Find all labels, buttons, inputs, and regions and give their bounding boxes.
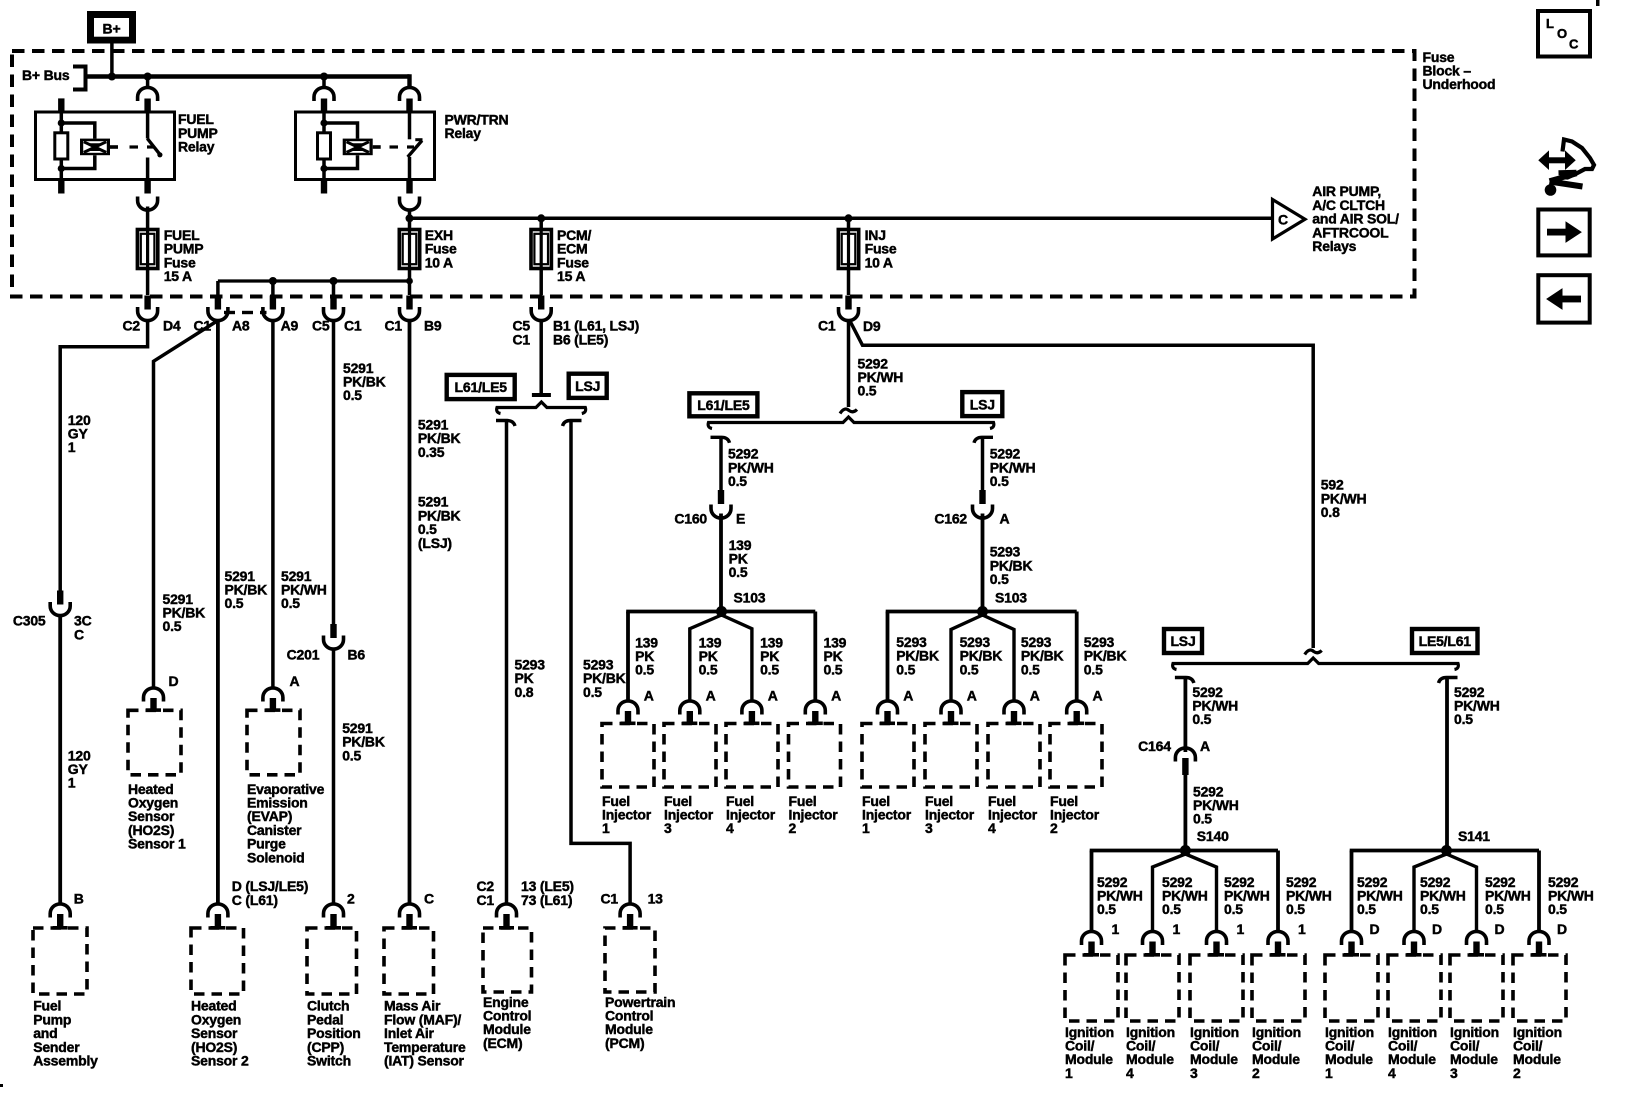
component Powertrain Control Module PCM (605, 928, 675, 1051)
relay coil pin stub bottom (58, 180, 64, 194)
svg-text:(LSJ): (LSJ) (418, 535, 452, 551)
junction lower rail A9 (269, 277, 277, 285)
svg-text:(ECM): (ECM) (483, 1035, 522, 1051)
svg-text:0.5: 0.5 (1021, 661, 1040, 677)
connector C1/A8 (194, 296, 250, 334)
connector pin 1 Ignition Coil 1 (LSJ) (1082, 921, 1120, 957)
component Ignition Coil Module 4 (LE5/L61) (1388, 955, 1441, 1081)
connector pin A Fuel Injector 1 (L61/LE5) (618, 687, 654, 725)
svg-text:C2: C2 (123, 318, 141, 334)
arrow C to air pump a/c clutch relays (1273, 183, 1400, 254)
wire brace to S141 5292 PK/WH (1439, 678, 1458, 851)
connector pin A EVAP (263, 673, 300, 712)
svg-text:B6: B6 (348, 646, 366, 662)
svg-text:0.5: 0.5 (163, 618, 182, 634)
svg-text:A8: A8 (232, 318, 250, 334)
svg-text:B6 (LE5): B6 (LE5) (553, 331, 608, 347)
component Ignition Coil Module 2 (LE5/L61) (1513, 955, 1566, 1081)
connector C1/D9 (818, 269, 881, 335)
svg-text:A9: A9 (281, 318, 299, 334)
connector pin A Fuel Injector 4 (L61/LE5) (742, 687, 778, 725)
wire C5 to C201 5291 PK/BK (332, 321, 336, 627)
wire C160 to S103 139 PK (719, 514, 723, 612)
svg-text:O: O (1557, 26, 1567, 41)
svg-text:0.5: 0.5 (225, 595, 244, 611)
svg-text:0.5: 0.5 (583, 684, 602, 700)
svg-text:0.5: 0.5 (760, 662, 779, 678)
wire A9 to EVAP 5291 PK/WH (271, 321, 275, 689)
svg-text:0.5: 0.5 (896, 661, 915, 677)
svg-text:A: A (1093, 687, 1103, 703)
fuse INJ 10A (838, 218, 897, 270)
label 5292 PK/WH 0.5 c164 upper (1192, 684, 1238, 727)
svg-text:10 A: 10 A (865, 254, 893, 270)
svg-text:L: L (1546, 16, 1554, 31)
tag L61/LE5 ecm (447, 375, 515, 399)
wire fuel pump fuse down (146, 269, 150, 296)
wire B+ to bus (110, 44, 114, 77)
connector pin D HO2S1 (144, 673, 179, 712)
label 5292 PK/WH 0.5 coil4b (1420, 874, 1466, 917)
svg-text:0.5: 0.5 (699, 662, 718, 678)
svg-text:C1: C1 (513, 331, 531, 347)
svg-text:C (L61): C (L61) (232, 892, 278, 908)
wire brace to C164 5292 PK/WH (1175, 678, 1194, 753)
icon LOC box (1538, 11, 1590, 57)
wire C162 to S103 5293 PK/BK (981, 514, 985, 612)
component Fuel Injector 1 (L61/LE5) (602, 724, 654, 837)
svg-text:0.5: 0.5 (281, 595, 300, 611)
svg-text:B9: B9 (424, 318, 442, 334)
component Fuel Injector 1 (LSJ) (862, 724, 914, 837)
connector pin D/C HO2S2 (208, 878, 308, 930)
label 5292 PK/WH 0.5 coil2a (1286, 874, 1332, 917)
svg-text:1: 1 (862, 820, 870, 836)
svg-text:0.5: 0.5 (1420, 901, 1439, 917)
connector C5/C1 (312, 296, 362, 334)
svg-text:0.5: 0.5 (728, 473, 747, 489)
relay PWR/TRN Relay box (296, 111, 509, 179)
svg-text:D9: D9 (863, 318, 881, 334)
svg-text:A: A (768, 687, 778, 703)
connector pin 2 CPP (324, 891, 356, 930)
component Ignition Coil Module 1 (LE5/L61) (1325, 955, 1378, 1081)
label 5291 PK/WH 0.5 evap (281, 568, 327, 611)
connector C305 3C C (13, 591, 92, 643)
label 5292 PK/WH 0.5 d9 (858, 355, 904, 398)
icon vehicle view (1539, 140, 1594, 196)
fuse block underhood dashed border (12, 51, 1415, 297)
svg-text:4: 4 (726, 820, 734, 836)
connector pin fuel pump relay 87 (138, 180, 158, 211)
junction exh fuse (406, 214, 414, 222)
connector pin A Fuel Injector 3 (L61/LE5) (680, 687, 716, 725)
label 5293 PK/BK 0.5 inj2b (1084, 634, 1127, 677)
svg-text:A: A (706, 687, 716, 703)
splice S140 (1180, 828, 1229, 856)
svg-text:C164: C164 (1138, 738, 1171, 754)
connector C162 A (934, 490, 1009, 526)
svg-text:0.5: 0.5 (1454, 711, 1473, 727)
svg-text:1: 1 (1065, 1065, 1073, 1081)
connector pin D Ignition Coil 3 (LE5/L61) (1467, 921, 1505, 957)
svg-text:1: 1 (1173, 921, 1181, 937)
wire bus to fuel pump relay pin (146, 77, 150, 89)
connector pin fuel pump relay 30 (138, 87, 158, 112)
svg-text:D: D (1370, 921, 1380, 937)
component Ignition Coil Module 3 (LE5/L61) (1450, 955, 1503, 1081)
wire S103-1 rail (626, 612, 815, 701)
wire exh fuse lower rail (218, 269, 410, 296)
svg-text:A: A (831, 687, 841, 703)
connector pin pwr/trn relay coil (314, 87, 334, 112)
wire C201 to CPP switch (332, 649, 336, 904)
svg-text:2: 2 (789, 820, 797, 836)
svg-text:0.5: 0.5 (990, 473, 1009, 489)
svg-text:0.5: 0.5 (342, 747, 361, 763)
svg-text:LSJ: LSJ (575, 378, 600, 394)
label 5292 PK/WH 0.5 coil2b (1548, 874, 1594, 917)
svg-text:Solenoid: Solenoid (247, 849, 305, 865)
wire D9 branch to 592 PK/WH (851, 322, 1314, 648)
svg-text:1: 1 (68, 775, 76, 791)
label 5291 PK/BK 0.5 cpp upper (343, 360, 386, 403)
fuse PCM/ECM 15A (531, 218, 592, 284)
svg-text:0.5: 0.5 (1192, 711, 1211, 727)
wire bus corner to pwr/trn switch pin (407, 77, 409, 89)
relay coil resistor (55, 112, 68, 180)
label 5292 PK/WH 0.5 coil3b (1485, 874, 1531, 917)
svg-text:0.5: 0.5 (729, 564, 748, 580)
connector pin 1 Ignition Coil 2 (LSJ) (1268, 921, 1306, 957)
svg-text:C1: C1 (601, 891, 619, 907)
label 5293 PK/BK 0.5 pcm (583, 656, 626, 699)
splice S103 group2 (977, 589, 1027, 617)
relay coil solenoid winding (61, 123, 118, 169)
label 5292 PK/WH 0.5 s140 (1193, 783, 1239, 826)
svg-text:A: A (644, 687, 654, 703)
svg-text:C1: C1 (818, 318, 836, 334)
label 120 GY 1 lower (68, 747, 91, 790)
splice S103 group1 (716, 589, 766, 617)
relay coil pin stub top (58, 98, 64, 112)
tag L61/LE5 injectors (689, 393, 757, 416)
wire C5C1 to split (532, 321, 551, 398)
svg-text:C5: C5 (312, 318, 330, 334)
wire brace to C160 5292 PK/WH (711, 437, 730, 490)
svg-text:0.35: 0.35 (418, 444, 445, 460)
tilde injector brace feed (840, 409, 857, 413)
svg-text:0.5: 0.5 (1162, 901, 1181, 917)
node B+ Bus bracket (22, 67, 86, 90)
svg-text:E: E (736, 510, 745, 526)
component Fuel Injector 2 (L61/LE5) (789, 724, 841, 837)
svg-text:73 (L61): 73 (L61) (521, 892, 572, 908)
label 5292 PK/WH 0.5 c160 (728, 446, 774, 489)
svg-text:Assembly: Assembly (33, 1052, 98, 1068)
svg-text:D: D (1557, 921, 1567, 937)
relay switch (147, 112, 162, 180)
svg-text:C: C (1278, 212, 1288, 228)
component Ignition Coil Module 2 (LSJ) (1252, 955, 1305, 1081)
relay FUEL PUMP Relay box (36, 111, 218, 179)
component Heated Oxygen Sensor HO2S Sensor 1 (128, 710, 186, 851)
svg-text:C305: C305 (13, 612, 46, 628)
connector pin C MAF (400, 891, 435, 930)
connector pin 1 Ignition Coil 3 (LSJ) (1207, 921, 1245, 957)
svg-text:0.5: 0.5 (960, 661, 979, 677)
pwr/trn relay coil resistor (318, 112, 331, 180)
label 5293 PK 0.8 (515, 656, 546, 699)
svg-text:3: 3 (925, 820, 933, 836)
stray mark left edge (0, 1084, 3, 1087)
svg-text:Relay: Relay (445, 125, 482, 141)
connector C5/C1 pcm-ecm (513, 269, 640, 348)
component EVAP Canister Purge Solenoid (247, 710, 325, 865)
connector pins C2/C1 ECM (477, 878, 574, 930)
connector pin C1 13 PCM (601, 891, 664, 930)
svg-text:2: 2 (1513, 1065, 1521, 1081)
label 120 GY 1 upper (68, 412, 91, 455)
connector pin pwr/trn relay 87 (400, 180, 420, 211)
wire split to ECM 5293 PK (496, 421, 515, 904)
svg-text:A: A (1000, 510, 1010, 526)
wire split to PCM 5293 PK/BK (563, 421, 631, 904)
power symbol B+ (87, 11, 136, 44)
svg-text:D: D (1432, 921, 1442, 937)
wire B+ bus (86, 74, 410, 78)
component Fuel Injector 3 (L61/LE5) (664, 724, 716, 837)
svg-text:15 A: 15 A (557, 268, 585, 284)
label 5293 PK/BK 0.5 inj4b (1021, 634, 1064, 677)
label 5291 PK/BK 0.35 (418, 416, 461, 459)
svg-text:Sensor 2: Sensor 2 (191, 1052, 249, 1068)
svg-text:D: D (169, 673, 179, 689)
connector C2/D4 (123, 296, 181, 334)
label 592 PK/WH 0.8 (1321, 477, 1367, 520)
connector C1/B9 (385, 296, 442, 334)
svg-text:S103: S103 (995, 589, 1027, 605)
tag LSJ injectors (962, 392, 1002, 416)
connector C160 E (674, 490, 745, 526)
component Engine Control Module ECM (483, 928, 532, 1051)
svg-text:(IAT) Sensor: (IAT) Sensor (384, 1052, 465, 1068)
svg-text:L61/LE5: L61/LE5 (697, 397, 750, 413)
svg-text:C: C (1569, 37, 1579, 52)
svg-text:4: 4 (988, 820, 996, 836)
connector pin D Ignition Coil 2 (LE5/L61) (1529, 921, 1567, 957)
connector pin A Fuel Injector 3 (LSJ) (941, 687, 977, 725)
svg-text:C: C (424, 891, 434, 907)
svg-text:0.5: 0.5 (1084, 661, 1103, 677)
svg-text:LSJ: LSJ (1170, 633, 1195, 649)
svg-text:C: C (74, 626, 84, 642)
fuse FUEL PUMP 15A (137, 207, 203, 285)
svg-text:0.5: 0.5 (1097, 901, 1116, 917)
fuse EXH 10A (399, 227, 457, 270)
label 5293 PK/BK 0.5 c162 (990, 544, 1033, 587)
brace injector split (708, 417, 994, 429)
junction pcm/ecm fuse tap (537, 214, 545, 222)
component Ignition Coil Module 3 (LSJ) (1190, 955, 1243, 1081)
wire D9 down 5292 PK/WH (847, 321, 851, 408)
svg-text:A: A (290, 673, 300, 689)
pwr/trn relay solenoid winding (324, 123, 381, 169)
svg-text:1: 1 (1325, 1065, 1333, 1081)
svg-text:0.5: 0.5 (858, 383, 877, 399)
wire S103-2 rail (886, 612, 1077, 701)
connector pin 1 Ignition Coil 4 (LSJ) (1143, 921, 1181, 957)
wire C305 to fuel pump (58, 616, 62, 904)
wire B9 to MAF 5291 PK/BK (408, 321, 412, 904)
splice S141 (1441, 828, 1490, 856)
wire C164 to S140 5292 PK/WH (1184, 775, 1188, 851)
label 5293 PK/BK 0.5 inj3b (960, 634, 1003, 677)
wire A8 to HO2S2 5291 PK/BK (216, 321, 220, 904)
connector pin A Fuel Injector 2 (L61/LE5) (805, 687, 841, 725)
component Fuel Pump and Sender Assembly (33, 928, 98, 1068)
label 5292 PK/WH 0.5 coil4a (1162, 874, 1208, 917)
pwr/trn relay coil pin stub bottom (321, 180, 327, 194)
svg-text:0.5: 0.5 (1485, 901, 1504, 917)
component Fuel Injector 4 (LSJ) (988, 724, 1040, 837)
svg-text:D4: D4 (163, 318, 181, 334)
connector pin pwr/trn relay 30 (400, 87, 420, 112)
svg-text:0.5: 0.5 (1286, 901, 1305, 917)
svg-text:1: 1 (68, 439, 76, 455)
wire A8 to HO2S1 5291 PK/BK (154, 321, 218, 689)
svg-text:0.8: 0.8 (515, 684, 534, 700)
svg-text:0.8: 0.8 (1321, 504, 1340, 520)
svg-text:4: 4 (1126, 1065, 1134, 1081)
tag LSJ coils (1164, 629, 1202, 653)
svg-text:A: A (967, 687, 977, 703)
svg-text:0.5: 0.5 (1357, 901, 1376, 917)
tag LSJ ecm (569, 374, 607, 398)
wire relay output rail (410, 210, 1273, 230)
svg-text:B+ Bus: B+ Bus (22, 67, 70, 83)
svg-text:2: 2 (1050, 820, 1058, 836)
svg-text:0.5: 0.5 (824, 662, 843, 678)
wire brace to C162 5292 PK/WH (974, 437, 993, 490)
svg-text:A: A (1200, 738, 1210, 754)
connector C164 A (1138, 738, 1210, 775)
svg-text:D: D (1495, 921, 1505, 937)
svg-text:Underhood: Underhood (1423, 76, 1496, 92)
icon arrow next (1538, 210, 1589, 256)
svg-text:0.5: 0.5 (1193, 811, 1212, 827)
svg-text:3: 3 (1450, 1065, 1458, 1081)
component Heated Oxygen Sensor HO2S Sensor 2 (191, 928, 249, 1068)
svg-text:LSJ: LSJ (970, 396, 995, 412)
svg-text:LE5/L61: LE5/L61 (1419, 633, 1472, 649)
connector pin D Ignition Coil 4 (LE5/L61) (1404, 921, 1442, 957)
component Ignition Coil Module 1 (LSJ) (1065, 955, 1118, 1081)
svg-text:L61/LE5: L61/LE5 (455, 379, 508, 395)
connector pin A Fuel Injector 4 (LSJ) (1004, 687, 1040, 725)
component Clutch Pedal Position CPP Switch (307, 928, 361, 1068)
junction lower rail C5 (330, 277, 338, 285)
icon arrow prev (1538, 275, 1589, 322)
junction lower rail exh (406, 278, 413, 285)
pwr/trn relay actuator dashed link (390, 145, 415, 148)
label 5292 PK/WH 0.5 s141 (1454, 684, 1500, 727)
svg-text:Switch: Switch (307, 1052, 351, 1068)
relay actuator dashed link (130, 145, 155, 148)
svg-text:0.5: 0.5 (990, 571, 1009, 587)
component Ignition Coil Module 4 (LSJ) (1126, 955, 1179, 1081)
svg-text:(PCM): (PCM) (605, 1035, 644, 1051)
svg-text:4: 4 (1388, 1065, 1396, 1081)
svg-text:C1: C1 (344, 318, 362, 334)
brace ecm/pcm split (497, 402, 586, 414)
svg-text:C201: C201 (287, 646, 320, 662)
connector A9 (263, 296, 299, 334)
svg-text:2: 2 (347, 891, 355, 907)
svg-text:10 A: 10 A (425, 254, 453, 270)
svg-text:15 A: 15 A (164, 268, 192, 284)
label 5292 PK/WH 0.5 coil1b (1357, 874, 1403, 917)
connector C201 B6 (287, 624, 366, 662)
label 139 PK 0.5 inj2 (824, 634, 847, 677)
label 5291 PK/BK 0.5 LSJ (418, 494, 461, 551)
label 5291 PK/BK 0.5 ho2s1 (163, 591, 206, 634)
wire S141 rail (1350, 851, 1539, 932)
svg-text:Relay: Relay (178, 139, 215, 155)
svg-text:C1: C1 (385, 318, 403, 334)
component Fuel Injector 3 (LSJ) (925, 724, 977, 837)
svg-text:2: 2 (1252, 1065, 1260, 1081)
svg-text:B+: B+ (103, 21, 121, 37)
page corner mark (1596, 0, 1600, 6)
label 5292 PK/WH 0.5 c162 (990, 446, 1036, 489)
label 139 PK 0.5 c160 (729, 537, 752, 580)
label 5292 PK/WH 0.5 coil3a (1224, 874, 1270, 917)
svg-text:Relays: Relays (1312, 238, 1356, 254)
svg-text:C160: C160 (674, 510, 707, 526)
svg-text:0.5: 0.5 (1224, 901, 1243, 917)
svg-text:Sensor 1: Sensor 1 (128, 836, 186, 852)
svg-text:C162: C162 (934, 510, 967, 526)
svg-text:B: B (74, 891, 84, 907)
svg-text:0.5: 0.5 (343, 387, 362, 403)
wire fuel pump feed 120 GY (60, 321, 147, 592)
junction B+ wire on bus (108, 73, 116, 81)
label 5292 PK/WH 0.5 coil1a (1097, 874, 1143, 917)
tag LE5/L61 coils (1412, 629, 1478, 653)
label 5291 PK/BK 0.5 ho2s2 (225, 568, 268, 611)
connector pin A Fuel Injector 1 (LSJ) (878, 687, 914, 725)
junction inj fuse tap (845, 214, 853, 222)
svg-text:1: 1 (1112, 921, 1120, 937)
svg-text:S140: S140 (1197, 828, 1229, 844)
svg-text:0.5: 0.5 (635, 662, 654, 678)
component Fuel Injector 4 (L61/LE5) (726, 724, 778, 837)
svg-text:A: A (903, 687, 913, 703)
brace coil split (1173, 658, 1459, 670)
svg-text:S141: S141 (1458, 828, 1490, 844)
svg-text:3: 3 (664, 820, 672, 836)
component Mass Air Flow MAF IAT Sensor (384, 928, 466, 1068)
label 139 PK 0.5 inj3 (699, 634, 722, 677)
junction fuel pump relay tap (144, 73, 152, 81)
tilde coil brace feed (1305, 650, 1322, 654)
connector pin B fuel pump (50, 891, 83, 930)
svg-text:0.5: 0.5 (1548, 901, 1567, 917)
junction pwr/trn relay coil tap (320, 73, 328, 81)
wire S140 rail (1090, 851, 1278, 932)
label Fuse Block Underhood (1423, 49, 1496, 92)
